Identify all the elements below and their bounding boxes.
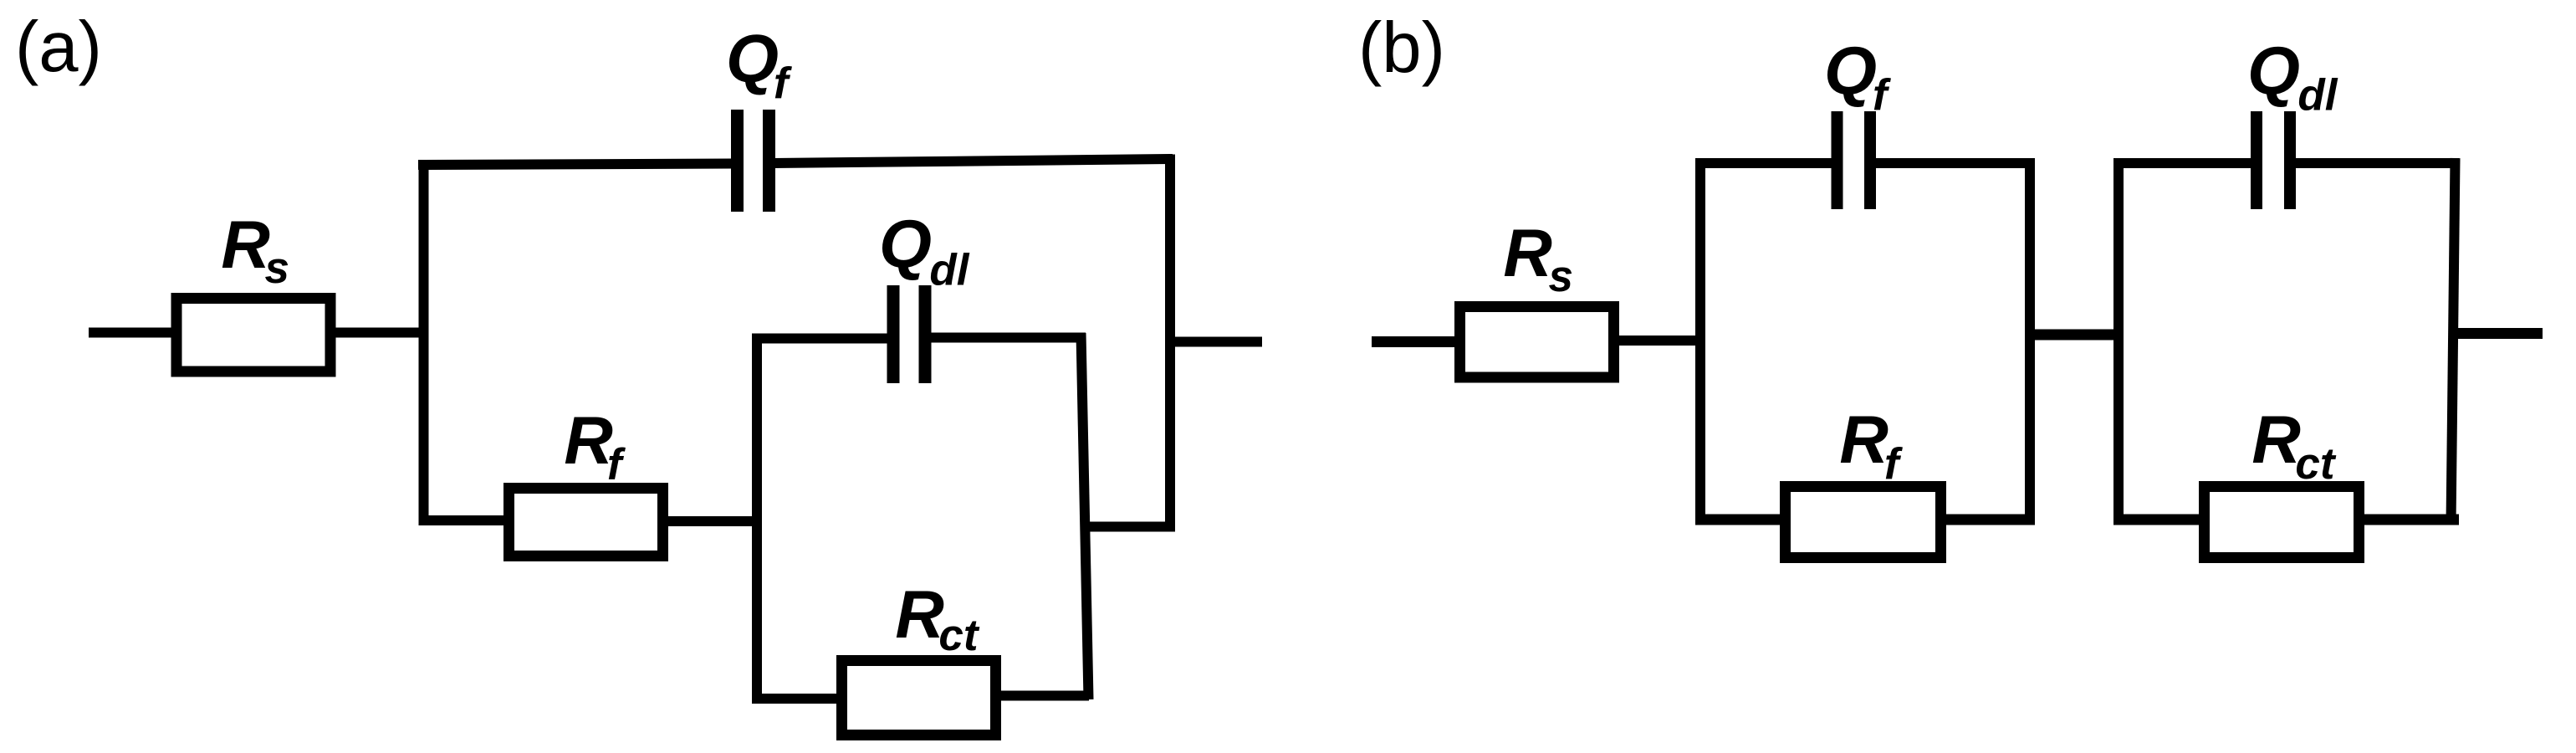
capacitor Qf left plate (a) xyxy=(731,110,744,212)
resistor Rs (b) xyxy=(1460,307,1614,378)
svg-text:f: f xyxy=(774,59,793,109)
wire: output lead (b) xyxy=(2451,328,2543,339)
capacitor Qf right plate (a) xyxy=(763,110,775,212)
resistor Rs (a) xyxy=(176,299,330,372)
wire: output lead (a) xyxy=(1170,337,1262,347)
svg-text:R: R xyxy=(221,207,270,283)
svg-text:Q: Q xyxy=(2247,33,2300,109)
svg-text:f: f xyxy=(607,440,626,489)
svg-text:dl: dl xyxy=(929,246,969,295)
wire: top branch left segment (a) xyxy=(418,164,733,166)
capacitor Qdl left plate (a) xyxy=(887,285,900,383)
wire: inner cell top left segment (a) xyxy=(752,334,889,344)
svg-text:(a): (a) xyxy=(15,8,102,87)
svg-text:R: R xyxy=(1503,216,1552,291)
svg-text:ct: ct xyxy=(2295,439,2336,489)
wire: cell 1 top right segment (b) xyxy=(1875,158,2035,168)
wire: inner cell bottom left segment (a) xyxy=(752,694,847,704)
wire: top branch right segment (a) xyxy=(774,159,1173,163)
svg-text:R: R xyxy=(895,577,944,653)
wire: cell 2 bottom left segment (b) xyxy=(2113,515,2210,525)
svg-text:(b): (b) xyxy=(1358,8,1445,88)
wire: input lead (a) xyxy=(89,328,177,338)
wire: cell 1 bottom right segment (b) xyxy=(1935,515,2035,525)
wire: inner cell bottom right segment (a) xyxy=(990,691,1089,701)
wire: inner cell left vertical (a) xyxy=(752,334,762,704)
svg-text:f: f xyxy=(1873,71,1892,120)
svg-text:s: s xyxy=(1549,252,1573,301)
resistor Rf (b) xyxy=(1786,487,1941,558)
wire: left branch vertical (a) xyxy=(419,160,429,525)
capacitor Qf right plate (b) xyxy=(1864,111,1876,209)
wire: cell 2 right vertical (b) xyxy=(2451,158,2456,525)
svg-text:ct: ct xyxy=(938,611,979,660)
wire: Rs to left node (a) xyxy=(330,328,427,338)
wire: cell 1 right vertical (b) xyxy=(2025,158,2035,525)
wire: cell 1 top left segment (b) xyxy=(1695,158,1832,168)
wire: Rs to cell 1 (b) xyxy=(1613,336,1705,346)
svg-text:R: R xyxy=(564,403,613,479)
resistor Rct (b) xyxy=(2205,487,2359,558)
wire: inner cell to right branch (a) xyxy=(1083,522,1175,532)
svg-text:Q: Q xyxy=(726,21,779,96)
wire: bottom branch left segment (a) xyxy=(419,515,513,525)
capacitor Qdl right plate (a) xyxy=(919,285,932,383)
svg-text:R: R xyxy=(1839,402,1889,478)
wire: cell 1 left vertical (b) xyxy=(1695,158,1705,525)
wire: Rf to inner cell (a) xyxy=(661,516,762,526)
capacitor Qdl right plate (b) xyxy=(2284,111,2296,209)
svg-text:Q: Q xyxy=(1824,33,1877,109)
svg-text:dl: dl xyxy=(2297,71,2338,120)
capacitor Qdl left plate (b) xyxy=(2251,111,2262,209)
wire: inner cell top right segment (a) xyxy=(930,333,1086,343)
wire: cell 2 top right segment (b) xyxy=(2295,158,2459,168)
wire: inner cell right vertical (a) xyxy=(1081,333,1089,699)
wire: cell 2 top left segment (b) xyxy=(2113,158,2251,168)
wire: cell 2 bottom right segment (b) xyxy=(2354,515,2459,525)
wire: link between cells (b) xyxy=(2030,330,2124,341)
wire: right branch vertical (a) xyxy=(1165,155,1175,526)
svg-text:Q: Q xyxy=(879,207,932,282)
wire: cell 2 left vertical (b) xyxy=(2113,158,2124,525)
wire: cell 1 bottom left segment (b) xyxy=(1695,515,1791,525)
wire: input lead (b) xyxy=(1372,336,1462,347)
resistor Rct (a) xyxy=(842,661,996,735)
svg-text:s: s xyxy=(265,243,289,293)
svg-text:R: R xyxy=(2251,402,2301,478)
resistor Rf (a) xyxy=(509,489,663,556)
capacitor Qf left plate (b) xyxy=(1832,111,1843,209)
